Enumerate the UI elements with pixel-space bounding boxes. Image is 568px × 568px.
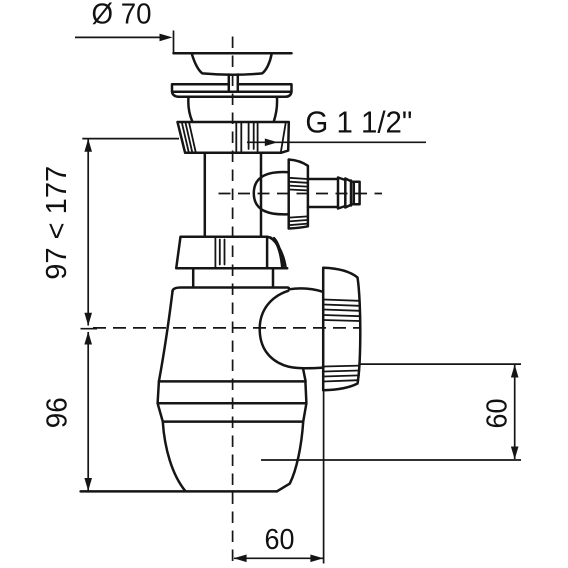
Ø70 arrowhead [160,34,173,42]
flange plate [172,84,292,97]
outlet nut [323,268,360,391]
main horizontal dashed reference line [93,327,360,329]
outlet nut knurl top [324,300,360,322]
96 arrow down [84,478,92,491]
top nut G1.5 outline [178,122,289,153]
hose barb [308,178,360,209]
left dim extension line top [82,138,179,140]
spout nut knurl top [289,178,308,191]
right 60 dimension line [514,365,516,459]
tick at 97 split [81,328,98,330]
97<177 dimension line [87,140,89,326]
bottom 60 arrow left [234,555,247,563]
Ø70 arrow line [75,36,167,38]
spout nut plate [289,160,308,229]
right 60 arrow up [511,365,519,378]
lower nut [176,237,287,269]
neck below lower nut [192,268,195,287]
top sink reference line [174,52,292,55]
vertical tube [204,153,207,237]
96 dimension line [87,332,89,491]
bowl [163,422,303,492]
lobe outer top arc [289,288,323,291]
svg-text:60: 60 [265,524,295,556]
G leader arrowhead [265,139,278,147]
97 arrow down [84,313,92,326]
vertical centerline [232,37,234,567]
lobe inner arc [260,291,324,368]
svg-text:G 1 1/2": G 1 1/2" [305,105,412,140]
bottom 60 arrow right [310,555,323,563]
bottom 60 dimension line [234,557,323,559]
strainer cup [192,55,272,75]
lower nut mid knurl [215,237,224,268]
outlet nut knurl bottom [324,366,360,382]
top nut right inner slant [281,122,286,152]
union ring [158,381,307,421]
right 60 top reference line [360,363,521,365]
lobe to ring junction [303,368,306,381]
bottom 60 extension line [323,391,325,564]
svg-text:97 < 177: 97 < 177 [41,166,73,280]
right 60 arrow down [511,447,519,460]
top nut left knurl [182,122,196,152]
lower nut face divider [266,237,269,269]
lower nut right knurl [271,237,284,268]
tapered collar [188,97,277,122]
body left side [159,292,173,382]
stem [228,75,231,92]
Ø70 tick [173,31,175,54]
spout horizontal centerline [219,193,383,195]
svg-text:60: 60 [481,399,513,429]
spout nut knurl bottom [289,216,308,225]
right 60 bottom reference line [261,459,521,461]
G leader line [247,141,426,143]
baseline [81,490,277,493]
spout dome [254,172,289,214]
body top edge [173,287,290,291]
svg-text:96: 96 [42,397,74,428]
97 arrow up [84,139,92,152]
svg-text:Ø 70: Ø 70 [92,0,152,31]
top nut mid knurl [236,122,257,152]
96 arrow up [84,332,92,345]
